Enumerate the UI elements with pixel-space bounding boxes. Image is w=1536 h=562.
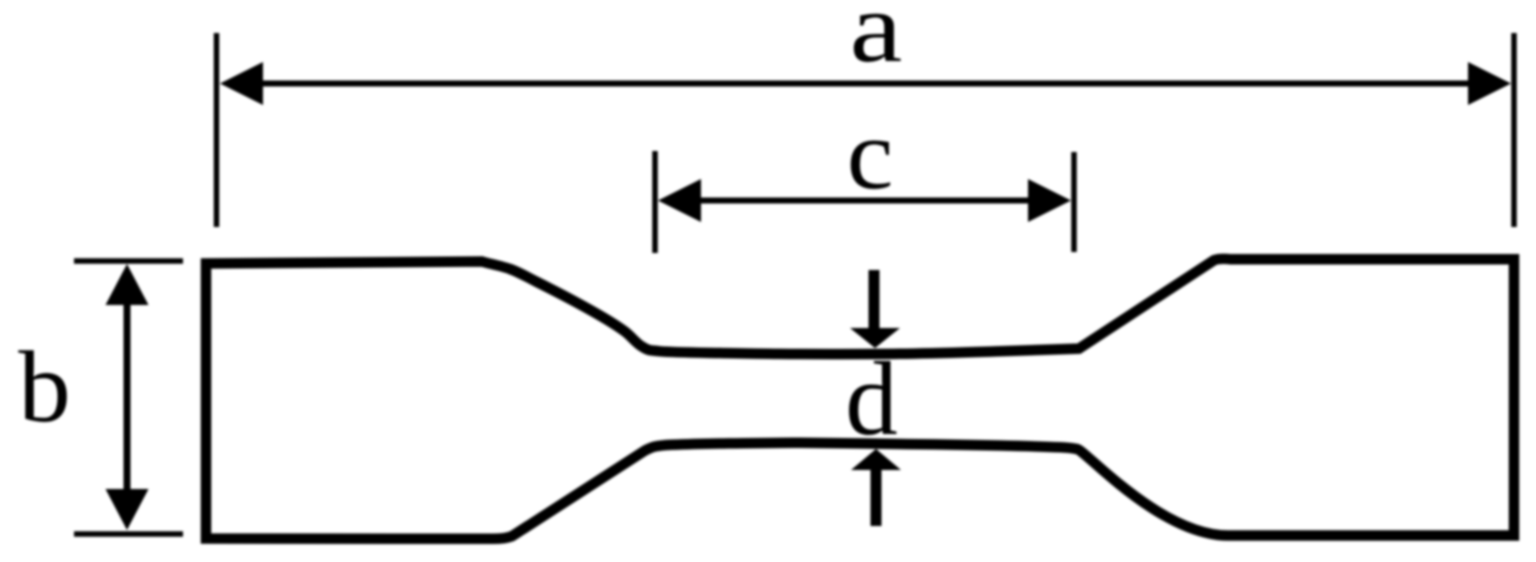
svg-text:b: b (18, 331, 71, 443)
svg-text:c: c (847, 99, 894, 211)
svg-text:d: d (845, 340, 898, 457)
svg-text:a: a (850, 0, 903, 83)
